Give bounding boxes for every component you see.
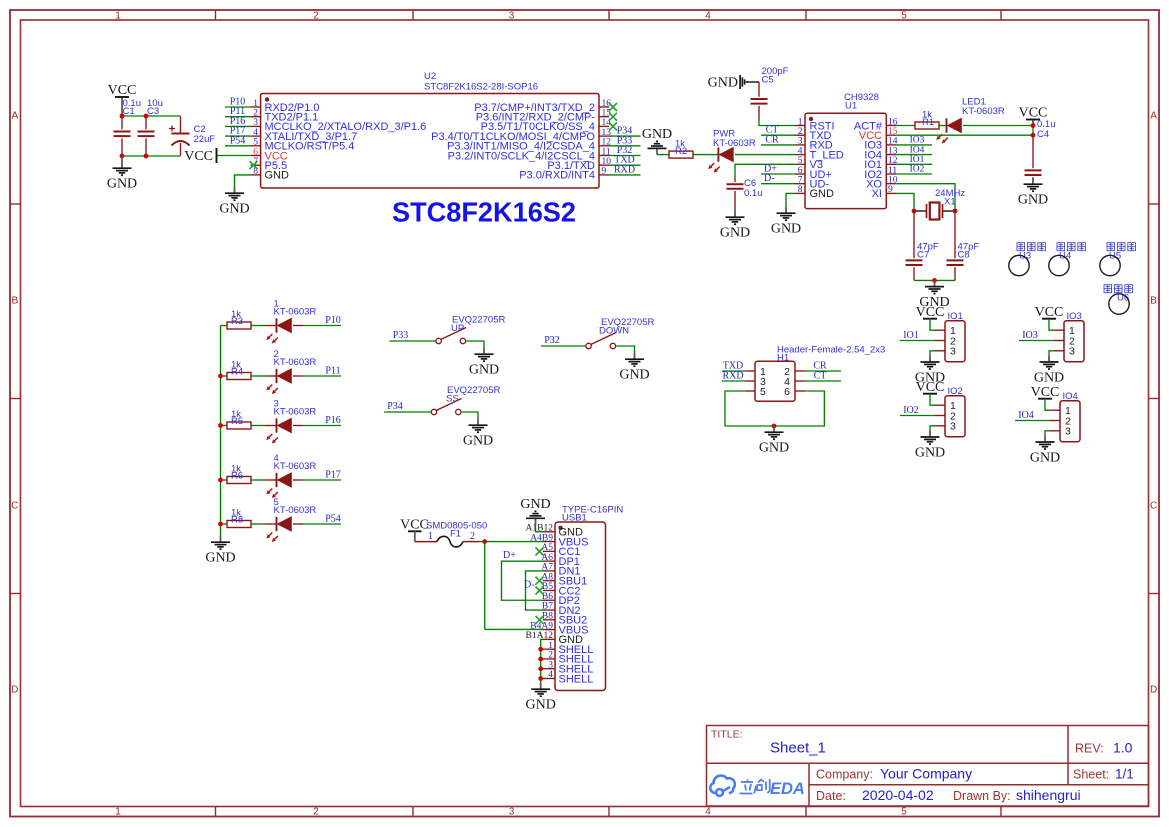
wire net P33 bbox=[609, 145, 641, 147]
svg-text:REV:: REV: bbox=[1075, 742, 1104, 756]
wire F1 to VBUS bbox=[479, 541, 543, 543]
wire gnd stub bbox=[121, 156, 123, 163]
wire net to switch DOWN bbox=[541, 345, 586, 347]
svg-text:IO4: IO4 bbox=[910, 145, 925, 155]
svg-text:VCC: VCC bbox=[916, 305, 945, 320]
power flag VCC (LED1/C4) bbox=[1019, 106, 1048, 126]
capacitor C1 bbox=[121, 116, 123, 156]
svg-text:GND: GND bbox=[219, 202, 249, 217]
capacitor C4 bbox=[1032, 135, 1034, 184]
svg-text:D-: D- bbox=[764, 173, 775, 184]
svg-text:KT-0603R: KT-0603R bbox=[274, 307, 317, 318]
svg-text:R1: R1 bbox=[922, 117, 934, 128]
svg-text:1.0: 1.0 bbox=[1113, 740, 1133, 756]
wire net P17 bbox=[303, 479, 341, 481]
connector IO1 header body bbox=[945, 321, 965, 362]
power flag VCC (IO4 header) bbox=[1031, 385, 1060, 400]
IO4 header pin stubs bbox=[1050, 410, 1060, 431]
crystal X1 24MHz bbox=[914, 203, 955, 220]
LED lead bbox=[266, 375, 277, 377]
svg-text:GND: GND bbox=[1018, 193, 1048, 208]
wire net to switch UP bbox=[390, 340, 436, 342]
wire IO3 header pin3 to ground bbox=[1049, 351, 1054, 357]
screw hole U6 bbox=[1109, 294, 1129, 314]
svg-text:1/1: 1/1 bbox=[1115, 767, 1134, 782]
svg-text:3: 3 bbox=[509, 11, 515, 22]
svg-text:1: 1 bbox=[115, 11, 121, 22]
resistor R8 bbox=[227, 521, 251, 528]
svg-text:STC8F2K16S2: STC8F2K16S2 bbox=[392, 197, 576, 228]
USB1 pin stubs bbox=[543, 532, 555, 679]
svg-text:R3: R3 bbox=[231, 316, 243, 327]
svg-text:P3.0/RXD/INT4: P3.0/RXD/INT4 bbox=[519, 170, 595, 182]
no-connect U2 pin7 bbox=[250, 161, 258, 169]
ground (PWR LED) bbox=[642, 127, 672, 155]
U2 left pin numbers bbox=[253, 99, 258, 177]
wire net CT (H1) bbox=[805, 380, 841, 382]
svg-text:2020-04-02: 2020-04-02 bbox=[862, 787, 934, 803]
wire U1 pin16 to R1 bbox=[896, 125, 915, 127]
USB1 pin numbers bbox=[526, 524, 554, 681]
connector USB1 body bbox=[555, 522, 606, 691]
ground (DOWN switch) bbox=[619, 353, 649, 383]
logo cloud bbox=[710, 776, 735, 796]
svg-text:GND: GND bbox=[265, 170, 290, 182]
LED 4 KT-0603R bbox=[266, 473, 291, 498]
wire R4 to LED bbox=[251, 375, 266, 377]
wire net IO2 (U1) bbox=[896, 173, 932, 175]
svg-text:SS: SS bbox=[446, 394, 459, 405]
svg-text:KT-0603R: KT-0603R bbox=[274, 357, 317, 368]
svg-text:KT-0603R: KT-0603R bbox=[713, 138, 756, 149]
wire U2 pin8 to ground bbox=[235, 175, 251, 188]
svg-text:SHELL: SHELL bbox=[559, 673, 594, 685]
wire net D+ (U1) bbox=[761, 173, 795, 175]
junction bbox=[538, 657, 543, 662]
svg-text:KT-0603R: KT-0603R bbox=[962, 106, 1005, 117]
wire USB1 A1B12 to ground bbox=[536, 525, 544, 532]
junction bbox=[144, 114, 149, 119]
IC U1 CH9328 body bbox=[805, 113, 886, 208]
ground (H1) bbox=[759, 426, 789, 456]
svg-text:GND: GND bbox=[205, 551, 235, 566]
ground (U1 pin8) bbox=[771, 207, 801, 237]
LED 1 KT-0603R bbox=[266, 318, 291, 343]
svg-text:4: 4 bbox=[705, 11, 711, 22]
capacitor C5 bbox=[758, 82, 760, 120]
capacitor C7 plates bbox=[906, 260, 923, 265]
wire U1 pin8 to ground bbox=[786, 193, 795, 207]
wire net IO4 bbox=[1015, 420, 1050, 422]
wire net P16 bbox=[225, 125, 251, 127]
svg-text:GND: GND bbox=[520, 497, 550, 512]
capacitor C7 bbox=[913, 211, 915, 280]
svg-text:D: D bbox=[11, 685, 18, 696]
svg-text:B: B bbox=[11, 296, 18, 307]
junction bbox=[218, 478, 223, 483]
ground (USB1 top) bbox=[520, 497, 550, 525]
wire VCC down to C4 bbox=[1032, 126, 1034, 136]
svg-text:Your Company: Your Company bbox=[880, 766, 972, 782]
svg-text:1: 1 bbox=[428, 531, 433, 542]
switch SS EVQ22705R bbox=[431, 399, 461, 415]
capacitor C6 plates bbox=[727, 184, 744, 189]
capacitor C1 plates bbox=[114, 132, 131, 137]
junction bbox=[538, 676, 543, 681]
svg-text:B1A12: B1A12 bbox=[526, 631, 554, 641]
wire net D- (USB1) bbox=[526, 571, 544, 610]
ground (cap bank) bbox=[107, 162, 137, 192]
svg-text:GND: GND bbox=[463, 434, 493, 449]
svg-text:VCC: VCC bbox=[1031, 385, 1060, 400]
ground (IO3 header) bbox=[1034, 356, 1064, 386]
svg-text:shihengrui: shihengrui bbox=[1016, 787, 1081, 803]
U1 right pin names bbox=[854, 120, 883, 200]
switch DOWN EVQ22705R bbox=[586, 333, 616, 349]
U1 right pin stubs bbox=[886, 126, 896, 194]
ground (U2 pin8) bbox=[219, 187, 249, 217]
wire net TXD bbox=[722, 370, 745, 372]
svg-text:R4: R4 bbox=[231, 366, 243, 377]
svg-text:IO1: IO1 bbox=[903, 330, 919, 341]
wire shell pin 4 bbox=[541, 678, 543, 680]
wire IO2 header pin3 to ground bbox=[930, 426, 935, 432]
wire net TXD bbox=[609, 164, 641, 166]
wire IO4 header pin3 to ground bbox=[1045, 431, 1050, 437]
junction bbox=[538, 666, 543, 671]
svg-text:2: 2 bbox=[470, 531, 475, 542]
junction bbox=[120, 154, 125, 159]
svg-text:GND: GND bbox=[107, 177, 137, 192]
svg-text:GND: GND bbox=[708, 76, 738, 91]
junction bbox=[218, 423, 223, 428]
svg-text:2: 2 bbox=[548, 651, 553, 661]
no-connect U2 pin15 bbox=[609, 113, 617, 121]
label screw hole U6 bbox=[1104, 285, 1132, 293]
ground (C5) bbox=[708, 75, 753, 91]
svg-text:RXD: RXD bbox=[722, 370, 743, 381]
LED lead bbox=[266, 479, 277, 481]
junction bbox=[482, 539, 487, 544]
power flag VCC (IO1 header) bbox=[916, 305, 945, 320]
wire gnd to C5 bbox=[753, 81, 760, 83]
svg-text:3: 3 bbox=[950, 421, 956, 433]
LED lead bbox=[266, 325, 277, 327]
LED lead bbox=[293, 479, 303, 481]
svg-text:IO4: IO4 bbox=[1018, 410, 1034, 421]
svg-text:1: 1 bbox=[115, 807, 121, 818]
wire net P11 bbox=[303, 375, 341, 377]
wire net CR (H1) bbox=[805, 370, 841, 372]
wire U1 pin10 XO bbox=[896, 184, 955, 211]
IO4 header pin names bbox=[1065, 405, 1071, 438]
svg-text:4: 4 bbox=[548, 670, 553, 680]
svg-text:VCC: VCC bbox=[108, 83, 137, 98]
wire net P17 bbox=[225, 135, 251, 137]
svg-text:A: A bbox=[1150, 111, 1157, 122]
USB1 pin names bbox=[559, 527, 594, 686]
U2 left pin stubs bbox=[251, 107, 261, 175]
svg-text:GND: GND bbox=[810, 188, 835, 200]
IC U2 STC8F2K16S2-28I-SOP16 body bbox=[261, 94, 599, 189]
wire VBUS vertical bbox=[484, 542, 486, 630]
wire top rail bbox=[122, 115, 181, 117]
junction bbox=[1031, 123, 1036, 128]
ground (SS switch) bbox=[463, 419, 493, 449]
ground (C4) bbox=[1018, 178, 1048, 208]
fuse F1 bbox=[415, 536, 479, 547]
power flag VCC (IO2 header) bbox=[916, 380, 945, 395]
U1 pin1 marker bbox=[809, 117, 813, 121]
svg-text:XI: XI bbox=[872, 188, 882, 200]
wire rail to R4 bbox=[221, 375, 228, 377]
wire bottom rail bbox=[122, 155, 181, 157]
connector IO3 header body bbox=[1064, 321, 1084, 362]
svg-text:5: 5 bbox=[901, 11, 907, 22]
ground (UP switch) bbox=[469, 348, 499, 378]
logo text licuang bbox=[740, 779, 770, 794]
wire net IO3 bbox=[1019, 340, 1054, 342]
svg-text:P34: P34 bbox=[387, 401, 403, 412]
wire U1 pin15 VCC bbox=[896, 134, 1033, 136]
svg-text:1: 1 bbox=[548, 641, 553, 651]
U2 left pin names bbox=[265, 102, 427, 182]
U2 right pin stubs bbox=[599, 107, 609, 175]
svg-text:2: 2 bbox=[313, 807, 319, 818]
svg-text:Drawn By:: Drawn By: bbox=[953, 789, 1011, 803]
svg-text:A: A bbox=[11, 111, 18, 122]
wire R2 to PWR LED bbox=[693, 154, 718, 156]
LED lead bbox=[293, 523, 303, 525]
capacitor C3 plates bbox=[138, 132, 155, 137]
label screw hole U5 bbox=[1107, 243, 1135, 251]
svg-text:3: 3 bbox=[509, 807, 515, 818]
screw hole U3 bbox=[1009, 255, 1029, 275]
resistor R6 bbox=[227, 477, 251, 484]
svg-text:P32: P32 bbox=[544, 335, 560, 346]
wire switch UP to ground bbox=[466, 341, 484, 349]
svg-text:P11: P11 bbox=[325, 365, 340, 376]
wire gnd to R2 bbox=[657, 154, 669, 156]
svg-text:GND: GND bbox=[771, 222, 801, 237]
IO2 header pin stubs bbox=[935, 405, 945, 426]
svg-text:B7: B7 bbox=[542, 602, 553, 612]
svg-text:VCC: VCC bbox=[400, 518, 429, 533]
connector IO2 header body bbox=[945, 396, 965, 437]
wire net P10 bbox=[303, 325, 341, 327]
U1 left pin names bbox=[810, 120, 844, 200]
svg-text:Sheet_1: Sheet_1 bbox=[770, 740, 826, 757]
USB1 pin1 marker bbox=[558, 526, 562, 530]
wire shell pin 2 bbox=[541, 658, 543, 660]
svg-text:3: 3 bbox=[1065, 426, 1071, 438]
wire shell pin 1 bbox=[541, 648, 543, 650]
svg-text:R6: R6 bbox=[231, 470, 243, 481]
svg-text:D: D bbox=[1150, 685, 1157, 696]
wire R3 to LED bbox=[251, 325, 266, 327]
wire shell pin 3 bbox=[541, 668, 543, 670]
connector H1 body bbox=[755, 361, 795, 401]
H1 pin names bbox=[760, 366, 790, 398]
svg-text:RXD: RXD bbox=[614, 164, 635, 175]
wire H1 pin6 to ground bbox=[774, 391, 824, 426]
no-connect U2 pin14 bbox=[609, 122, 617, 130]
junction bbox=[218, 374, 223, 379]
IO1 header pin stubs bbox=[935, 330, 945, 351]
capacitor C4 plates bbox=[1025, 170, 1042, 175]
no-connect U2 pin16 bbox=[609, 103, 617, 111]
svg-text:GND: GND bbox=[1034, 370, 1064, 385]
svg-text:GND: GND bbox=[759, 441, 789, 456]
no-connect USB1 A5 bbox=[536, 547, 544, 555]
power flag VCC (IO3 header) bbox=[1035, 305, 1064, 320]
svg-text:C7: C7 bbox=[917, 250, 929, 261]
capacitor C2 polarized bbox=[169, 116, 190, 156]
junction bbox=[120, 114, 125, 119]
svg-text:GND: GND bbox=[619, 368, 649, 383]
wire net D+ (USB1) bbox=[502, 561, 544, 600]
wire crystal caps to ground bbox=[914, 279, 955, 281]
svg-text:P17: P17 bbox=[325, 469, 341, 480]
border column ticks bbox=[216, 10, 1002, 817]
svg-text:P10: P10 bbox=[325, 315, 341, 326]
svg-text:A7: A7 bbox=[541, 563, 553, 573]
wire net IO4 (U1) bbox=[896, 154, 932, 156]
wire VBUS to B4A9 bbox=[485, 628, 543, 630]
svg-text:B: B bbox=[1150, 296, 1157, 307]
IO2 header pin names bbox=[950, 400, 956, 433]
junction bbox=[1031, 133, 1036, 138]
svg-text:F1: F1 bbox=[450, 529, 461, 540]
svg-text:Sheet:: Sheet: bbox=[1073, 768, 1109, 782]
wire H1 pin5 to ground bbox=[725, 391, 774, 426]
svg-text:VCC: VCC bbox=[916, 380, 945, 395]
ground (LED bank) bbox=[205, 536, 235, 566]
svg-text:GND: GND bbox=[915, 445, 945, 460]
capacitor C5 plates bbox=[751, 99, 768, 104]
power flag VCC (U2 pin6) bbox=[184, 148, 216, 164]
wire net P54 bbox=[303, 523, 341, 525]
svg-text:D+: D+ bbox=[503, 550, 516, 561]
U1 left pin numbers bbox=[798, 117, 803, 195]
capacitor C6 bbox=[734, 177, 736, 211]
wire rail to R6 bbox=[221, 479, 228, 481]
svg-text:P54: P54 bbox=[230, 135, 246, 146]
ground (IO4 header) bbox=[1030, 436, 1060, 466]
wire VCC to U2 pin6 bbox=[218, 155, 251, 157]
svg-text:R5: R5 bbox=[231, 416, 243, 427]
svg-text:2: 2 bbox=[313, 11, 319, 22]
svg-text:IO2: IO2 bbox=[910, 165, 925, 175]
svg-text:Date:: Date: bbox=[816, 789, 846, 803]
svg-text:DOWN: DOWN bbox=[599, 326, 629, 337]
svg-text:CT: CT bbox=[814, 370, 827, 381]
svg-text:IO3: IO3 bbox=[910, 136, 925, 146]
svg-text:KT-0603R: KT-0603R bbox=[274, 505, 317, 516]
wire U1 pin5 V3 bbox=[735, 164, 795, 177]
wire R5 to LED bbox=[251, 425, 266, 427]
wire net IO3 (U1) bbox=[896, 144, 932, 146]
wire PWR LED to U1 pin4 bbox=[735, 154, 795, 156]
junction bbox=[912, 209, 917, 214]
svg-text:X1: X1 bbox=[944, 197, 956, 208]
wire net RXD bbox=[722, 380, 745, 382]
svg-text:TITLE:: TITLE: bbox=[711, 729, 743, 741]
wire net P16 bbox=[303, 425, 341, 427]
svg-text:A4B9: A4B9 bbox=[530, 533, 553, 543]
label screw hole U3 bbox=[1017, 243, 1045, 251]
wire net CR bbox=[761, 144, 795, 146]
U2 pin1 marker bbox=[265, 97, 269, 101]
LED PWR KT-0603R bbox=[708, 147, 733, 172]
svg-text:VCC: VCC bbox=[184, 149, 213, 164]
svg-text:IO1: IO1 bbox=[910, 155, 925, 165]
LED lead bbox=[293, 325, 303, 327]
svg-text:GND: GND bbox=[720, 226, 750, 241]
svg-text:4: 4 bbox=[705, 807, 711, 818]
screw hole U4 bbox=[1049, 255, 1069, 275]
LED lead bbox=[266, 523, 277, 525]
svg-text:GND: GND bbox=[642, 127, 672, 142]
svg-text:GND: GND bbox=[469, 363, 499, 378]
svg-text:5: 5 bbox=[760, 386, 766, 398]
ground (crystal) bbox=[919, 280, 949, 310]
svg-text:C3: C3 bbox=[147, 106, 159, 117]
IO1 header pin names bbox=[950, 325, 956, 358]
svg-text:C5: C5 bbox=[762, 75, 774, 86]
LED 3 KT-0603R bbox=[266, 418, 291, 443]
svg-text:22uF: 22uF bbox=[194, 134, 216, 145]
wire net P11 bbox=[225, 116, 251, 118]
wire C5 to U1 pin1 bbox=[759, 120, 795, 126]
wire LED bank vertical rail bbox=[220, 326, 222, 537]
junction bbox=[218, 522, 223, 527]
svg-text:KT-0603R: KT-0603R bbox=[274, 407, 317, 418]
svg-text:P33: P33 bbox=[393, 330, 409, 341]
wire rail to R3 bbox=[221, 325, 228, 327]
switch UP EVQ22705R bbox=[436, 328, 466, 344]
LED lead bbox=[293, 375, 303, 377]
svg-text:CR: CR bbox=[765, 134, 779, 145]
svg-text:EDA: EDA bbox=[770, 780, 805, 798]
LED lead bbox=[266, 425, 277, 427]
svg-text:KT-0603R: KT-0603R bbox=[274, 461, 317, 472]
resistor R2 bbox=[669, 151, 693, 158]
junction bbox=[538, 647, 543, 652]
H1 pin stubs bbox=[745, 371, 805, 391]
LED 5 KT-0603R bbox=[266, 517, 291, 542]
wire net P10 bbox=[225, 106, 251, 108]
wire VCC to IO1 header pin1 bbox=[930, 319, 935, 331]
title block frame bbox=[707, 726, 1149, 807]
svg-text:IO3: IO3 bbox=[1022, 330, 1038, 341]
ground (IO2 header) bbox=[915, 431, 945, 461]
wire R6 to LED bbox=[251, 479, 266, 481]
wire LED1 to VCC bbox=[963, 125, 1033, 127]
svg-text:R2: R2 bbox=[675, 146, 687, 157]
wire VCC to IO4 header pin1 bbox=[1045, 399, 1050, 411]
wire switch DOWN to ground bbox=[616, 346, 635, 354]
U1 left pin stubs bbox=[795, 126, 805, 194]
screw hole U5 bbox=[1100, 255, 1120, 275]
wire R8 to LED bbox=[251, 523, 266, 525]
svg-text:Header-Female-2.54_2x3: Header-Female-2.54_2x3 bbox=[777, 345, 885, 356]
border row labels bbox=[11, 111, 1157, 696]
label screw hole U4 bbox=[1057, 243, 1085, 251]
wire net CT bbox=[761, 134, 795, 136]
wire net to switch SS bbox=[384, 411, 431, 413]
LED LED1 KT-0603R bbox=[936, 118, 961, 143]
